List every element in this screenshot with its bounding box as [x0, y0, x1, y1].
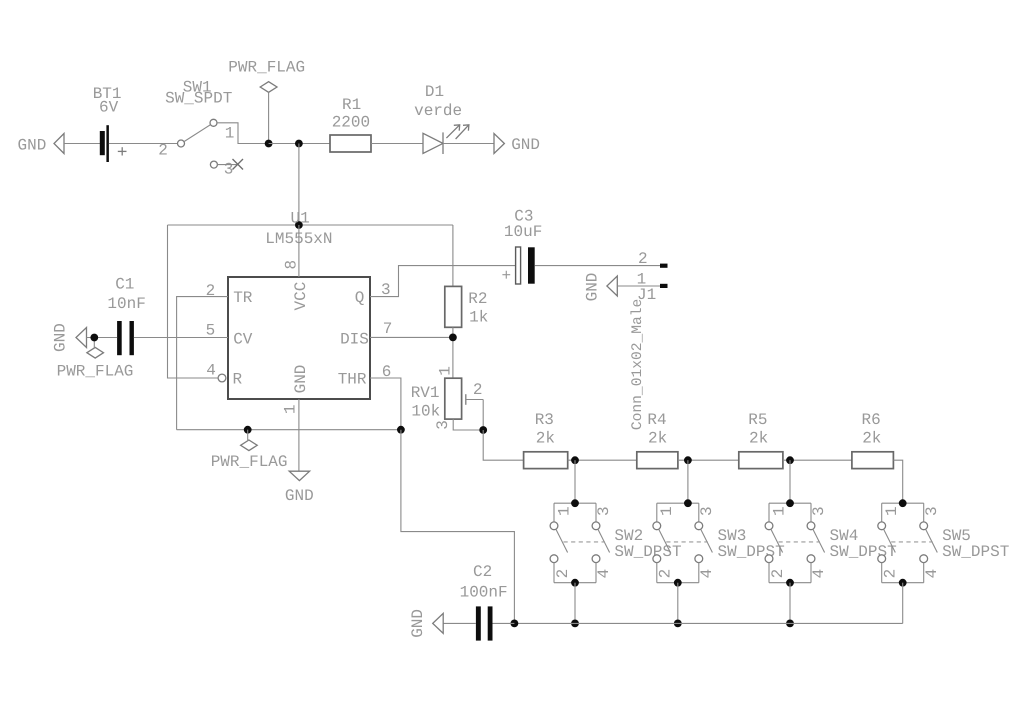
junction [449, 334, 457, 342]
potentiometer RV1 10k [411, 366, 484, 430]
switch SW1 SW_SPDT [158, 78, 243, 178]
power flag PWR_FLAG (top) [228, 59, 305, 144]
svg-text:GND: GND [18, 137, 47, 155]
resistor R5 2k [739, 411, 783, 468]
resistor R3 2k [524, 411, 568, 468]
svg-text:R: R [233, 370, 243, 388]
junction [397, 426, 405, 434]
wire (pin 8 stub) [298, 225, 300, 277]
junction [786, 499, 794, 507]
junction [265, 140, 273, 148]
svg-text:U1: U1 [291, 209, 310, 227]
wire [568, 459, 637, 461]
ground GND (at C2) [409, 609, 443, 638]
junction [295, 140, 303, 148]
svg-text:1: 1 [282, 404, 300, 414]
junction [295, 221, 303, 229]
svg-text:2k: 2k [648, 430, 667, 448]
junction [571, 456, 579, 464]
wire (SW2 feed) [574, 460, 576, 503]
svg-text:1k: 1k [469, 308, 488, 326]
svg-text:SW_DPST: SW_DPST [614, 543, 681, 561]
svg-text:CV: CV [233, 330, 253, 348]
svg-text:R5: R5 [748, 411, 767, 429]
svg-text:2: 2 [638, 250, 648, 268]
battery BT1 6V [93, 85, 127, 162]
svg-text:verde: verde [414, 102, 462, 120]
svg-text:PWR_FLAG: PWR_FLAG [228, 59, 305, 77]
wire (down to R3 row) [483, 430, 523, 460]
svg-text:R6: R6 [862, 411, 881, 429]
svg-text:2k: 2k [862, 430, 881, 448]
wire [535, 265, 660, 267]
svg-text:C1: C1 [115, 276, 134, 294]
wire [783, 459, 852, 461]
switch SW5 SW_DPST [878, 503, 1010, 583]
junction [571, 579, 579, 587]
svg-text:2: 2 [158, 141, 168, 159]
wire (RV1 wiper down) [482, 400, 484, 431]
svg-text:R3: R3 [535, 411, 554, 429]
svg-text:6V: 6V [99, 99, 119, 117]
svg-text:GND: GND [511, 136, 540, 154]
junction [511, 620, 519, 628]
wire [109, 143, 178, 145]
svg-text:Conn_01x02_Male: Conn_01x02_Male [630, 299, 646, 430]
svg-text:GND: GND [584, 273, 602, 302]
wire (bottom bus) [514, 622, 902, 624]
junction [571, 620, 579, 628]
svg-text:D1: D1 [425, 83, 444, 101]
wire [678, 459, 739, 461]
wire (VCC drop to U1) [298, 144, 300, 226]
junction [786, 456, 794, 464]
svg-text:8: 8 [282, 260, 300, 270]
svg-text:3: 3 [434, 420, 452, 430]
svg-text:SW_DPST: SW_DPST [718, 543, 785, 561]
resistor R1 2200 [330, 96, 371, 152]
wire (SW3 feed) [687, 460, 689, 503]
resistor R4 2k [637, 411, 678, 468]
wire [443, 143, 494, 145]
svg-text:1: 1 [225, 125, 235, 143]
junction [684, 499, 692, 507]
wire [269, 143, 330, 145]
svg-text:2k: 2k [749, 430, 768, 448]
svg-text:5: 5 [206, 322, 216, 340]
connector J1 Conn_01x02_Male [630, 250, 668, 430]
switch SW2 SW_DPST [550, 503, 682, 583]
resistor R2 1k [445, 286, 489, 327]
junction [90, 334, 98, 342]
capacitor C2 100nF [460, 563, 508, 641]
svg-text:1: 1 [437, 366, 455, 376]
wire [789, 583, 791, 624]
svg-text:THR: THR [338, 371, 367, 389]
svg-text:GND: GND [292, 365, 310, 394]
svg-text:10uF: 10uF [504, 223, 542, 241]
wire (pin 3 Q up and right to C3) [370, 266, 516, 297]
svg-text:RV1: RV1 [411, 384, 440, 402]
svg-text:4: 4 [206, 362, 216, 380]
svg-text:R4: R4 [647, 411, 666, 429]
svg-text:10nF: 10nF [107, 295, 145, 313]
svg-text:10k: 10k [411, 403, 440, 421]
svg-text:SW_SPDT: SW_SPDT [165, 89, 232, 107]
wire [64, 143, 100, 145]
svg-text:GND: GND [52, 323, 70, 352]
svg-text:PWR_FLAG: PWR_FLAG [57, 362, 134, 380]
wire (pin 6 THR right and down) [370, 378, 401, 430]
svg-text:PWR_FLAG: PWR_FLAG [211, 453, 288, 471]
wire (top horizontal) [168, 224, 453, 226]
svg-text:100nF: 100nF [460, 583, 508, 601]
wire [893, 460, 902, 503]
svg-text:VCC: VCC [292, 282, 310, 311]
wire (THR node down to C2) [401, 430, 515, 624]
switch SW4 SW_DPST [765, 503, 897, 583]
junction [786, 620, 794, 628]
svg-text:DIS: DIS [340, 330, 369, 348]
svg-text:7: 7 [383, 320, 393, 338]
junction [674, 620, 682, 628]
wire [217, 123, 269, 144]
svg-text:GND: GND [409, 609, 427, 638]
wire (R2 bottom to RV1 top) [452, 327, 454, 378]
wire (pin 2 TR left and down) [177, 297, 228, 430]
wire (pin 1 GND stub) [298, 399, 300, 471]
ground GND (battery left) [18, 134, 65, 155]
svg-text:3: 3 [224, 160, 234, 178]
svg-text:+: + [502, 267, 512, 285]
junction [674, 579, 682, 587]
svg-text:2: 2 [473, 381, 483, 399]
wire [902, 583, 904, 624]
wire (left vertical to pin 4) [168, 225, 219, 378]
wire [574, 583, 576, 624]
wire (bottom bus TR/THR) [177, 429, 401, 431]
svg-text:R1: R1 [342, 96, 361, 114]
junction [479, 426, 487, 434]
wire (SW4 feed) [789, 460, 791, 503]
ground GND (at J1 pin 1) [584, 273, 618, 302]
svg-text:C2: C2 [473, 563, 492, 581]
svg-text:2200: 2200 [332, 113, 370, 131]
wire (C1 to pin 5 CV) [134, 337, 228, 339]
svg-text:GND: GND [285, 487, 314, 505]
svg-text:SW_DPST: SW_DPST [830, 543, 897, 561]
capacitor C1 10nF [107, 276, 145, 356]
switch SW3 SW_DPST [653, 503, 785, 583]
LED D1 verde [414, 83, 469, 154]
power flag PWR_FLAG (bottom) [211, 430, 288, 471]
inverted pin circle (pin 4) [218, 374, 226, 382]
ground GND (right of D1) [494, 134, 540, 154]
junction [786, 579, 794, 587]
wire [371, 143, 423, 145]
wire (down to R2) [452, 225, 454, 286]
wire [677, 583, 679, 624]
wire [493, 622, 515, 624]
wire [87, 337, 118, 339]
capacitor C3 10uF [502, 208, 543, 285]
power flag PWR_FLAG (at C1) [57, 338, 134, 381]
junction [571, 499, 579, 507]
svg-text:TR: TR [233, 289, 253, 307]
svg-text:R2: R2 [468, 290, 487, 308]
svg-text:Q: Q [355, 289, 365, 307]
junction [899, 579, 907, 587]
ground GND (at C1) [52, 323, 87, 352]
wire (pin 7 DIS to R2 bottom) [370, 336, 453, 338]
wire [617, 285, 660, 287]
svg-text:SW_DPST: SW_DPST [942, 543, 1009, 561]
ground GND (U1 pin 1) [285, 471, 314, 505]
svg-text:2k: 2k [536, 430, 555, 448]
junction [899, 499, 907, 507]
junction [684, 456, 692, 464]
wire (RV1 pin 3) [453, 419, 483, 430]
resistor R6 2k [852, 411, 894, 468]
wire [443, 622, 476, 624]
op-amp U1 LM555xN (timer IC) [228, 209, 370, 399]
junction [244, 426, 252, 434]
